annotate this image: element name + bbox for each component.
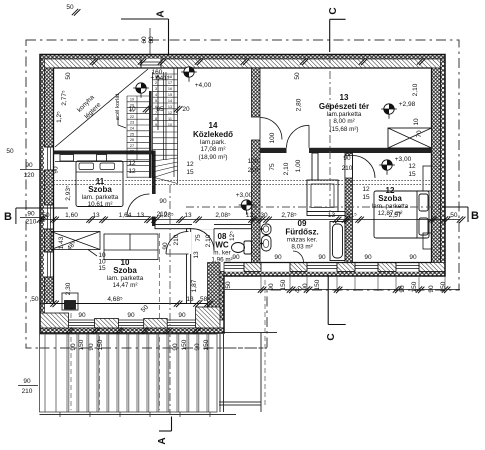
svg-text:5: 5 (155, 99, 157, 103)
door hall->13 (260, 118, 282, 140)
svg-text:90: 90 (25, 162, 33, 169)
svg-text:90: 90 (127, 312, 135, 319)
svg-text:90: 90 (78, 312, 86, 319)
svg-text:Közlekedő: Közlekedő (193, 130, 233, 139)
svg-text:90: 90 (88, 343, 95, 351)
svg-text:210: 210 (157, 211, 168, 218)
bed room 11 (55, 161, 150, 207)
svg-text:lam. parketta: lam. parketta (372, 203, 409, 210)
right wall inner boxes room 12 (423, 166, 432, 249)
svg-text:B: B (471, 210, 479, 222)
svg-text:120: 120 (24, 172, 35, 179)
svg-text:210: 210 (22, 388, 33, 395)
svg-text:(15,68 m²): (15,68 m²) (329, 126, 358, 133)
door size labels (157, 155, 353, 218)
door 13 in bottom wall (287, 125, 310, 148)
roof dash over deck (40, 347, 268, 349)
svg-text:16: 16 (168, 87, 172, 91)
svg-text:50: 50 (294, 72, 301, 80)
svg-text:WC: WC (215, 241, 229, 250)
left stair flight (127, 96, 149, 178)
svg-text:70: 70 (416, 130, 423, 138)
svg-text:C: C (328, 7, 339, 14)
WC toilet (232, 241, 252, 254)
left wall window 1 (44, 147, 54, 170)
svg-text:+2,98: +2,98 (399, 101, 416, 108)
svg-text:acél korlát: acél korlát (115, 93, 121, 120)
svg-text:13: 13 (168, 105, 172, 109)
svg-text:4: 4 (155, 93, 157, 97)
svg-text:12: 12 (362, 186, 370, 193)
svg-text:1,87: 1,87 (191, 279, 198, 292)
svg-text:,51⁵: ,51⁵ (345, 212, 357, 219)
svg-text:12: 12 (168, 111, 172, 115)
svg-text:12: 12 (408, 163, 416, 170)
room11/hall wall (149, 91, 152, 178)
svg-text:90: 90 (27, 211, 35, 218)
svg-text:90: 90 (318, 254, 326, 261)
svg-text:60: 60 (148, 36, 155, 44)
09 top wall + shaft (307, 212, 345, 216)
svg-text:23: 23 (130, 121, 134, 125)
svg-text:90: 90 (399, 285, 406, 293)
hall/13 wall (252, 68, 261, 117)
svg-text:60: 60 (141, 36, 148, 44)
svg-text:100: 100 (269, 132, 276, 143)
svg-text:210: 210 (26, 219, 37, 226)
winder treads (153, 158, 178, 184)
stair tiny step numbers (155, 75, 172, 127)
wardrobe X room 10 (51, 232, 100, 257)
left wall window 2 (44, 205, 54, 229)
svg-text:15: 15 (186, 169, 194, 176)
svg-text:+3,00: +3,00 (395, 156, 412, 163)
svg-text:A: A (157, 437, 168, 444)
svg-text:C: C (326, 333, 337, 340)
svg-text:10: 10 (413, 118, 420, 126)
svg-text:12: 12 (128, 168, 136, 175)
svg-text:14: 14 (209, 121, 218, 130)
svg-text:B: B (4, 211, 12, 223)
section A line (121, 19, 172, 431)
svg-text:50: 50 (6, 148, 14, 155)
svg-text:50: 50 (66, 4, 74, 11)
svg-text:90: 90 (343, 155, 351, 162)
svg-text:2,10: 2,10 (283, 162, 290, 175)
svg-text:90: 90 (428, 285, 435, 293)
svg-text:27: 27 (130, 144, 134, 148)
svg-text:15: 15 (362, 194, 370, 201)
stair dims (128, 69, 190, 113)
svg-text:90: 90 (172, 343, 179, 351)
svg-text:210: 210 (342, 165, 353, 172)
svg-text:26: 26 (130, 138, 134, 142)
right wall (441, 59, 446, 276)
deck joist dashed lines (71, 233, 265, 410)
svg-text:13: 13 (92, 212, 100, 219)
walkway rails right of deck (219, 333, 277, 413)
svg-text:mázas ker.: mázas ker. (287, 237, 318, 244)
svg-text:2,10: 2,10 (205, 234, 212, 247)
svg-text:10: 10 (128, 106, 136, 113)
svg-text:12: 12 (128, 160, 136, 167)
inner face lines (54, 68, 432, 304)
svg-text:90: 90 (409, 254, 417, 261)
top wall insulation band (40, 55, 445, 60)
svg-text:90: 90 (159, 198, 167, 205)
svg-text:13: 13 (340, 93, 349, 102)
svg-text:150: 150 (314, 279, 321, 290)
step wall (208, 263, 221, 334)
deck planks (40, 334, 218, 412)
svg-text:90: 90 (364, 254, 372, 261)
svg-text:150: 150 (97, 339, 104, 350)
svg-text:13: 13 (137, 212, 145, 219)
svg-text:Szoba: Szoba (378, 194, 402, 203)
svg-text:24: 24 (130, 127, 134, 131)
svg-text:150: 150 (203, 339, 210, 350)
chimney with X (388, 128, 432, 148)
09/12 wall (345, 153, 353, 263)
svg-text:14,47 m²: 14,47 m² (113, 282, 138, 289)
section C line (328, 19, 346, 324)
svg-text:90: 90 (162, 242, 169, 250)
room10/WC wall (187, 229, 191, 304)
door ->room12 (353, 156, 376, 179)
svg-text:90: 90 (53, 166, 60, 174)
svg-text:4,68⁵: 4,68⁵ (107, 296, 123, 303)
svg-text:1,64: 1,64 (119, 212, 132, 219)
deck dim labels rotated (70, 279, 447, 350)
svg-text:10,61 m²: 10,61 m² (88, 201, 113, 208)
svg-text:90: 90 (194, 343, 201, 351)
exterior outline (40, 55, 445, 334)
60/60 extension line (149, 28, 151, 55)
svg-text:15: 15 (98, 265, 106, 272)
svg-text:lam. parketta: lam. parketta (107, 275, 144, 282)
svg-text:8: 8 (155, 117, 157, 121)
shower corner arc 09 (293, 251, 304, 263)
room11 top wall (dark) (54, 151, 153, 155)
svg-text:17,08 m²: 17,08 m² (201, 146, 226, 153)
svg-text:,50: ,50 (29, 296, 38, 303)
svg-text:Szoba: Szoba (113, 266, 137, 275)
svg-text:Szoba: Szoba (88, 185, 112, 194)
svg-text:15: 15 (168, 93, 172, 97)
svg-text:11: 11 (168, 117, 172, 121)
svg-text:A: A (156, 10, 167, 17)
top wall window opening (141, 59, 161, 69)
wall stub above shaft (312, 153, 318, 181)
bed room 12 (374, 191, 429, 238)
bottom-right windows (225, 262, 420, 272)
door room11->hall (127, 194, 150, 217)
deck edge bottom (40, 414, 237, 416)
roof overhang dash-dot outline (26, 40, 459, 348)
svg-text:25: 25 (130, 132, 134, 136)
svg-text:12⁵: 12⁵ (229, 231, 236, 241)
svg-text:14: 14 (168, 99, 172, 103)
stair arrows (156, 75, 160, 130)
svg-text:lam.parketta: lam.parketta (327, 111, 362, 118)
svg-text:(18,90 m²): (18,90 m²) (198, 154, 227, 161)
svg-text:1,60: 1,60 (65, 212, 78, 219)
svg-text:1,2⁵: 1,2⁵ (56, 111, 63, 123)
kitchen void diagonal (55, 69, 148, 147)
svg-text:2,78⁵: 2,78⁵ (281, 212, 297, 219)
svg-text:lam. parketta: lam. parketta (82, 194, 119, 201)
left wall (40, 59, 45, 333)
svg-text:Fürdősz.: Fürdősz. (285, 228, 318, 237)
svg-text:2,30: 2,30 (65, 282, 72, 295)
13 bottom wall (260, 148, 287, 153)
svg-text:13: 13 (328, 212, 336, 219)
09 bathtub (330, 222, 345, 261)
svg-text:75: 75 (269, 163, 276, 171)
svg-text:8,03 m²: 8,03 m² (291, 244, 312, 251)
svg-text:75: 75 (195, 234, 202, 242)
wall junction ticks top (90, 58, 426, 65)
svg-text:lam.park.: lam.park. (200, 139, 226, 146)
svg-text:22: 22 (130, 115, 134, 119)
svg-text:8,00 m²: 8,00 m² (333, 118, 354, 125)
svg-text:9: 9 (155, 123, 157, 127)
svg-text:90: 90 (23, 378, 31, 385)
svg-text:150: 150 (411, 281, 418, 292)
bottom-right wall (224, 263, 445, 272)
svg-text:1,00: 1,00 (295, 159, 302, 172)
svg-text:150: 150 (280, 279, 287, 290)
svg-text:2,08⁵: 2,08⁵ (215, 212, 231, 219)
svg-text:+3,00: +3,00 (236, 192, 253, 199)
svg-text:90: 90 (70, 343, 77, 351)
svg-text:12: 12 (186, 161, 194, 168)
svg-text:30: 30 (260, 212, 268, 219)
svg-text:2,77⁵: 2,77⁵ (61, 90, 68, 106)
svg-text:210: 210 (248, 167, 259, 174)
svg-text:50: 50 (65, 72, 72, 80)
door room10 (166, 232, 189, 255)
left wall window 3 (44, 252, 54, 277)
svg-text:90: 90 (178, 312, 186, 319)
svg-text:20: 20 (182, 106, 190, 113)
svg-text:2,10: 2,10 (412, 83, 419, 96)
top wall hatch (40, 59, 445, 68)
svg-text:1,96 m²: 1,96 m² (211, 257, 232, 264)
svg-text:28: 28 (130, 150, 134, 154)
door hall->WC (192, 229, 214, 251)
svg-text:,50: ,50 (448, 212, 457, 219)
09 washbasins (260, 224, 271, 251)
svg-text:m. ker: m. ker (213, 250, 231, 257)
svg-text:1,43: 1,43 (58, 236, 65, 249)
svg-text:13: 13 (193, 251, 200, 259)
svg-text:15: 15 (408, 171, 416, 178)
svg-text:13: 13 (186, 296, 194, 303)
svg-text:12,87 m²: 12,87 m² (378, 210, 403, 217)
svg-text:+4,00: +4,00 (195, 82, 212, 89)
svg-text:Gépészeti tér: Gépészeti tér (319, 102, 369, 111)
svg-text:90: 90 (232, 254, 240, 261)
svg-text:100: 100 (248, 158, 259, 165)
desk room 10 (62, 293, 78, 310)
shelves room11 top (60, 155, 74, 162)
svg-text:85: 85 (156, 106, 164, 113)
bottom-left wall (54, 303, 208, 305)
svg-text:2,80: 2,80 (296, 98, 303, 111)
section B line (16, 207, 468, 224)
svg-text:50: 50 (225, 281, 232, 289)
svg-text:150: 150 (78, 339, 85, 350)
svg-text:10: 10 (168, 123, 172, 127)
svg-text:150: 150 (181, 339, 188, 350)
svg-text:13: 13 (246, 212, 254, 219)
right bottom dimension line (224, 289, 460, 291)
svg-text:90: 90 (274, 254, 282, 261)
svg-text:210: 210 (173, 234, 180, 245)
svg-text:13: 13 (184, 212, 192, 219)
svg-text:+1,41⁵: +1,41⁵ (150, 75, 169, 82)
svg-text:2,93⁵: 2,93⁵ (65, 185, 72, 201)
svg-text:19: 19 (130, 98, 134, 102)
hall/room10+WC wall (155, 225, 252, 229)
svg-text:3: 3 (155, 87, 157, 91)
